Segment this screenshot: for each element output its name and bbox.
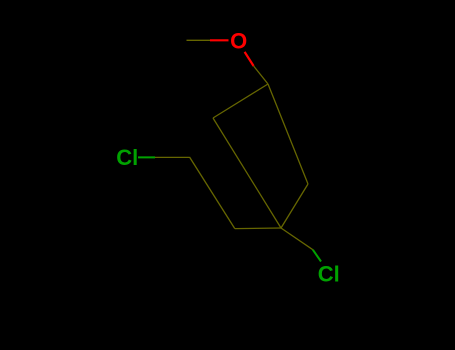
svg-text:Cl: Cl (116, 145, 138, 170)
svg-text:Cl: Cl (318, 262, 340, 287)
wire: bond O-C1 red half (245, 52, 254, 66)
wire: ring bond C5-C4 (281, 184, 308, 228)
wire: bond CH2-Cl left olive half (155, 156, 190, 158)
wire: ring bonds C1-C6-C5 (collinear) (268, 84, 308, 184)
svg-text:O: O (230, 28, 247, 53)
wire: bond C4-Cl bottom green half (313, 250, 321, 262)
wire: ring bonds C2-C3-C4 (collinear) (213, 118, 281, 228)
wire: ring bond C1-C2 (213, 84, 268, 118)
wire: bond O-C1 olive half (254, 66, 268, 84)
wire: bond CH2-Cl left green half (138, 156, 155, 158)
wire: bond CH3-O red half (210, 39, 229, 41)
wire: bond C4-Cl bottom olive half (281, 228, 313, 250)
wire: bond C4-CH2 (chloroethyl) (235, 227, 281, 230)
wire: bond CH2-CH2Cl (190, 157, 235, 229)
wire: bond CH3-O olive half (187, 39, 211, 41)
